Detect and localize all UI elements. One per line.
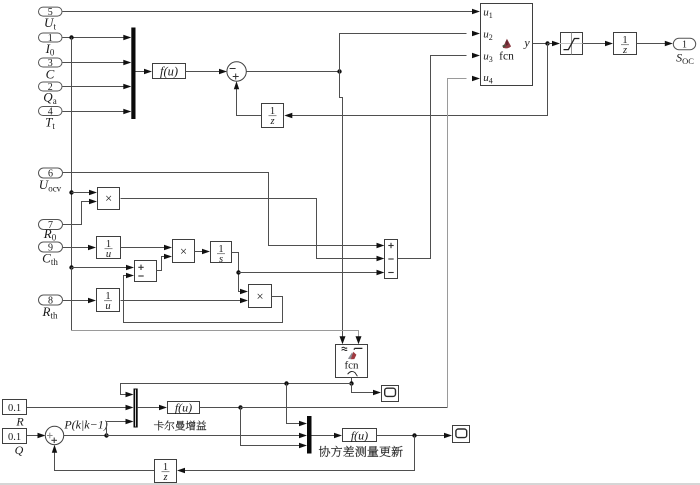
block F1 f(u) bbox=[153, 64, 186, 79]
wire Z1 to S1 plus bbox=[234, 81, 261, 115]
svg-text:Q: Q bbox=[15, 443, 24, 457]
svg-text:u: u bbox=[106, 249, 111, 260]
wire C_th to U3 recip bbox=[63, 245, 96, 250]
wire I_0 to mux M1 bbox=[63, 35, 132, 40]
wire Z2 to outport bbox=[637, 41, 673, 46]
label COV update bbox=[319, 446, 403, 457]
wire I_0 to product P1 bbox=[72, 190, 98, 195]
junction I_0 tap bbox=[69, 35, 73, 39]
svg-text:0.1: 0.1 bbox=[8, 403, 21, 414]
wire mux M3 to f(u) COV bbox=[312, 433, 343, 438]
wire Q to sum S3 bbox=[27, 433, 46, 438]
scope SC1 bbox=[382, 386, 399, 402]
wire KG to node J6 bbox=[200, 407, 241, 409]
block P1 product bbox=[98, 188, 120, 210]
svg-text:s: s bbox=[219, 254, 223, 265]
svg-text:×: × bbox=[256, 290, 263, 304]
sum S1 bbox=[227, 62, 246, 81]
svg-text:0.1: 0.1 bbox=[8, 432, 21, 443]
wire P1 to vsum minus1 bbox=[121, 199, 385, 262]
inport 5 U_t bbox=[39, 7, 63, 31]
junction I_0 at sum S2 bbox=[69, 265, 73, 269]
inport 6 U_ocv bbox=[39, 168, 63, 194]
svg-text:y: y bbox=[523, 35, 530, 49]
wire I_0 to fcn U2 in2 bbox=[72, 268, 362, 345]
mux M2 bbox=[134, 389, 138, 428]
inport 7 R_0 bbox=[39, 220, 63, 243]
wire R_0 to product P1 bbox=[63, 199, 97, 225]
block U3 1/u bbox=[97, 237, 121, 260]
wire Z3 to S3 plus bbox=[52, 445, 154, 471]
svg-text:u: u bbox=[105, 301, 110, 312]
block P3 product bbox=[173, 240, 195, 263]
block Z1 1/z bbox=[262, 104, 284, 128]
junction J3 bbox=[545, 41, 549, 45]
label KG kalman gain bbox=[154, 421, 206, 431]
inport 2 Q_a bbox=[39, 82, 63, 106]
wire VS1 to u3 bbox=[398, 53, 481, 259]
block Z3 1/z bbox=[155, 460, 177, 483]
wire P3 to integrator bbox=[195, 249, 211, 254]
wire fcn y to node J3 bbox=[533, 43, 548, 45]
wire R to mux M2 in2 bbox=[27, 405, 134, 410]
wire J6 to u4 bbox=[241, 76, 481, 408]
wire J7 to mux M3 in2 bbox=[107, 433, 308, 438]
svg-text:fcn: fcn bbox=[499, 51, 514, 63]
wire J4 to mux M2 in1 bbox=[121, 384, 352, 398]
block I1 1/s bbox=[211, 242, 232, 265]
constant R 0.1 bbox=[3, 400, 27, 429]
constant Q 0.1 bbox=[3, 429, 27, 458]
wire P2 feedback to S2 minus bbox=[124, 273, 283, 323]
wire S3 to node J7 bbox=[64, 435, 107, 437]
svg-text:C: C bbox=[46, 66, 55, 81]
wire J8 to Z3 bbox=[177, 436, 415, 474]
svg-text:×: × bbox=[105, 192, 112, 206]
inport 8 R_th bbox=[39, 295, 63, 321]
junction I_0 at product P1 bbox=[69, 190, 73, 194]
wire U4 to product P2 bbox=[121, 298, 249, 303]
sum S3 bbox=[45, 426, 63, 444]
junction integrator tap bbox=[236, 270, 240, 274]
outport 1 S_OC bbox=[673, 38, 695, 66]
wire J4 to scope SC1 bbox=[352, 384, 382, 396]
wire J3 to saturation bbox=[548, 41, 561, 46]
wire T_t to mux M1 bbox=[63, 109, 132, 114]
junction J7 bbox=[104, 433, 108, 437]
junction J8 bbox=[412, 433, 416, 437]
svg-text:f(u): f(u) bbox=[175, 401, 192, 415]
block U4 1/u bbox=[97, 289, 120, 312]
wire S1 to node J2 bbox=[246, 71, 339, 73]
block COV f(u) bbox=[343, 428, 377, 442]
wire Q_a to mux M1 bbox=[63, 84, 132, 89]
wire I_0 vertical bus bbox=[71, 38, 73, 268]
wire U2 out to node J4 bbox=[351, 378, 353, 384]
wire U3 to product P3 bbox=[121, 245, 173, 250]
wire U_ocv to vsum plus bbox=[63, 173, 385, 249]
junction J4 bbox=[349, 381, 353, 385]
block P2 product bbox=[249, 285, 272, 308]
block Z2 1/z bbox=[614, 33, 637, 56]
wire saturation to Z2 bbox=[583, 41, 614, 46]
svg-text:z: z bbox=[162, 472, 167, 483]
inport 9 C_th bbox=[39, 242, 63, 267]
wire C to mux M1 bbox=[63, 60, 132, 65]
block KG f(u) bbox=[168, 401, 200, 415]
svg-text:P(k|k−1): P(k|k−1) bbox=[63, 417, 107, 431]
junction J6 bbox=[238, 405, 242, 409]
block SAT saturation bbox=[560, 33, 583, 55]
svg-text:R: R bbox=[15, 415, 24, 429]
wire I_0 to sum S2 plus bbox=[72, 265, 135, 270]
wire J6 to mux M3 in3 bbox=[241, 408, 308, 449]
mux M3 bbox=[307, 416, 312, 454]
wire J2 down to fcn U2 in1 bbox=[340, 72, 346, 345]
bottom rule bbox=[0, 483, 700, 485]
svg-text:1: 1 bbox=[682, 39, 687, 50]
svg-text:fcn: fcn bbox=[344, 359, 359, 371]
wire mux M1 to f(u) F1 bbox=[136, 69, 153, 74]
wire integrator tap to vsum minus2 bbox=[239, 270, 385, 275]
junction J2 bbox=[337, 69, 341, 73]
svg-text:f(u): f(u) bbox=[160, 65, 178, 79]
svg-text:6: 6 bbox=[48, 168, 53, 179]
wire J3 down to Z1 bbox=[284, 44, 547, 119]
svg-text:f(u): f(u) bbox=[351, 428, 368, 442]
svg-text:×: × bbox=[180, 245, 187, 259]
scope SC2 bbox=[453, 426, 470, 443]
junction J5 bbox=[284, 381, 288, 385]
block S2 sum bbox=[135, 261, 157, 282]
wire integrator down to product P2 bbox=[232, 253, 249, 295]
sum VS1 vertical bbox=[385, 240, 398, 279]
inport 1 I_0 bbox=[39, 33, 63, 57]
svg-text:z: z bbox=[622, 45, 627, 56]
wire mux M2 to f(u) KG bbox=[138, 405, 167, 410]
wire S2 to product P3 bbox=[157, 254, 173, 271]
wire R_th to U4 recip bbox=[63, 298, 96, 303]
wire U_t to u1 bbox=[63, 9, 481, 14]
block U2 fcn small bbox=[336, 345, 368, 378]
label P(k|k-1) bbox=[63, 417, 107, 431]
svg-text:z: z bbox=[269, 116, 274, 127]
wire COV to scope SC2 bbox=[377, 433, 453, 438]
inport 3 C bbox=[39, 58, 63, 81]
wire F1 to sum S1 bbox=[186, 69, 228, 74]
mux M1 bbox=[131, 28, 135, 120]
block U1 fcn bbox=[481, 4, 533, 86]
inport 4 T_t bbox=[39, 106, 63, 130]
wire J2 up to u2 bbox=[340, 31, 481, 72]
wire J5 to mux M3 in1 bbox=[287, 384, 308, 427]
wire J7 to mux M2 in3 bbox=[107, 419, 134, 436]
